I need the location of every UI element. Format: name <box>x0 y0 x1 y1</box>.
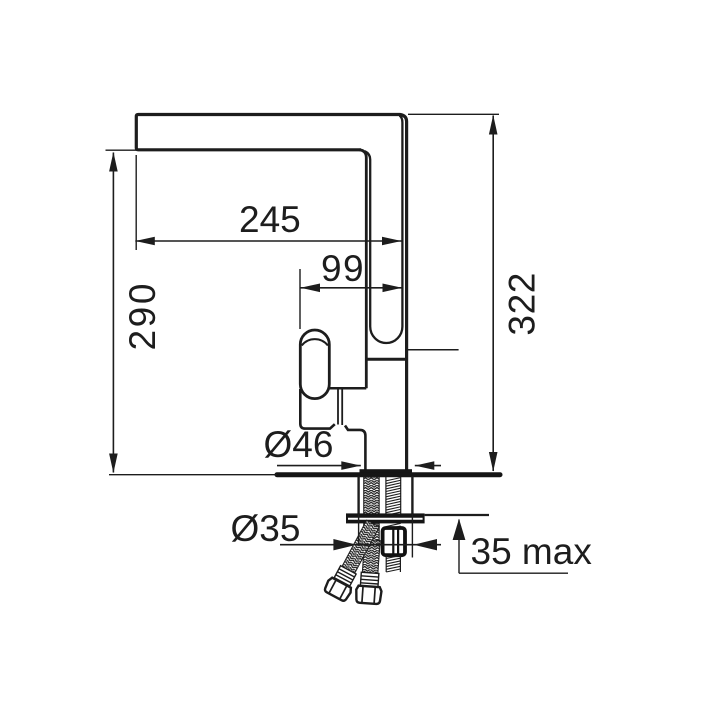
lever handle <box>300 330 329 399</box>
braided hose column above plate <box>364 477 380 514</box>
hex standoff nut <box>383 528 405 555</box>
faucet spout outline <box>136 115 406 470</box>
svg-text:35 max: 35 max <box>471 531 593 572</box>
svg-text:Ø46: Ø46 <box>264 424 334 465</box>
svg-text:245: 245 <box>239 199 301 240</box>
leader line from plate <box>425 514 489 516</box>
shank sides below counter <box>359 476 413 514</box>
threads below standoff <box>386 556 400 573</box>
body seam line <box>365 358 407 361</box>
mounting plate <box>346 513 425 523</box>
dimension 35 max <box>453 519 568 573</box>
dimension 245 <box>135 155 401 250</box>
threaded rod above plate <box>386 477 401 515</box>
hex nut right <box>355 586 381 605</box>
left hose collar ribs <box>334 566 356 586</box>
step under body <box>329 387 366 390</box>
right hose <box>355 539 385 604</box>
plate white stripe <box>348 518 423 520</box>
dimension 290 <box>106 150 278 475</box>
left hex nut <box>323 577 353 603</box>
dimension Ø46 <box>277 461 441 470</box>
svg-text:99: 99 <box>321 248 365 289</box>
spout outer contour <box>136 115 406 470</box>
braided hose below plate <box>364 523 380 542</box>
inner right edge / spray seam <box>365 116 403 344</box>
threaded rod between plate and standoff <box>386 523 401 529</box>
dimension 99 <box>300 269 402 329</box>
svg-text:Ø35: Ø35 <box>231 508 301 549</box>
left angled hose <box>323 518 384 603</box>
dimension 322 <box>408 114 499 471</box>
double vertical lines below step <box>338 388 342 425</box>
dimension Ø35 <box>280 539 441 550</box>
leader line to body <box>407 349 459 351</box>
body left edge <box>360 150 367 388</box>
handle housing lower contour <box>300 389 365 470</box>
svg-text:322: 322 <box>502 272 543 336</box>
base flange <box>360 469 413 474</box>
extension lines below plate for Ø35 <box>359 514 413 558</box>
svg-text:290: 290 <box>122 281 163 351</box>
countertop line <box>277 472 500 477</box>
lever cap seam <box>302 339 328 345</box>
